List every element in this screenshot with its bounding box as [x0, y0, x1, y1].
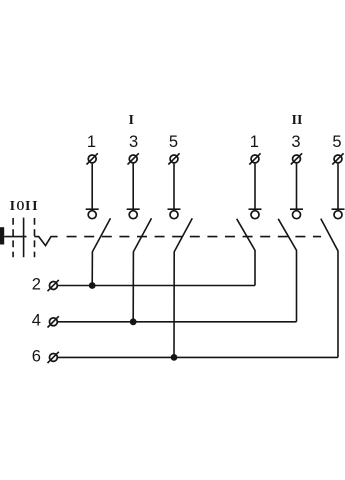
terminal symbol 5 (group I) [168, 153, 179, 164]
wire node 2 [58, 285, 255, 287]
position labels I O II [10, 197, 40, 214]
switch blade pole II-1 with wire to node 2 [237, 219, 255, 286]
actuator handle stub (left edge) [0, 227, 4, 244]
wire node 4 [58, 321, 297, 323]
switch blade pole I-1 with wire to node 2 [92, 218, 110, 285]
wire pole II-5 [337, 164, 339, 209]
junction node 2 / pole I-1 [89, 282, 96, 289]
fixed contact pole I-5 [168, 209, 181, 219]
svg-text:1: 1 [87, 133, 96, 151]
switch blade pole II-5 with wire to node 6 [321, 219, 338, 358]
svg-text:II: II [25, 199, 39, 214]
svg-text:5: 5 [332, 133, 341, 151]
position line O (solid) [23, 218, 25, 258]
svg-text:2: 2 [32, 276, 41, 294]
svg-text:6: 6 [32, 347, 41, 365]
terminal symbol 1 (group II) [249, 153, 260, 164]
fixed contact pole II-1 [249, 209, 262, 219]
detent notch at position II [34, 237, 57, 246]
junction node 4 / pole I-3 [130, 318, 137, 325]
terminal symbol 3 (group I) [128, 153, 139, 164]
wire pole II-1 [254, 164, 256, 209]
svg-text:1: 1 [250, 133, 259, 151]
wire pole I-3 [132, 164, 134, 209]
svg-text:I: I [10, 199, 15, 214]
svg-text:3: 3 [291, 133, 300, 151]
svg-text:3: 3 [129, 133, 138, 151]
switch blade pole I-5 with wire to node 6 [174, 218, 192, 357]
terminal symbol 2 [48, 280, 59, 291]
terminal symbol 4 [48, 316, 59, 327]
wire node 6 [58, 356, 338, 358]
wire pole I-1 [91, 164, 93, 209]
junction node 6 / pole I-5 [171, 354, 178, 361]
fixed contact pole II-5 [332, 209, 345, 219]
actuator shaft [4, 236, 26, 238]
switch blade pole I-3 with wire to node 4 [133, 218, 151, 322]
svg-text:I: I [128, 113, 133, 128]
switch blade pole II-3 with wire to node 4 [278, 219, 296, 322]
terminal symbol 1 (group I) [87, 153, 98, 164]
fixed contact pole II-3 [290, 209, 303, 219]
fixed contact pole I-3 [127, 209, 140, 219]
mechanical linkage dashed line [67, 236, 321, 238]
terminal symbol 5 (group II) [332, 153, 343, 164]
wire pole II-3 [296, 164, 298, 209]
svg-text:II: II [292, 113, 303, 128]
fixed contact pole I-1 [86, 209, 99, 219]
position line I (dashed) [12, 218, 14, 257]
wire pole I-5 [173, 164, 175, 209]
terminal symbol 3 (group II) [291, 153, 302, 164]
position line II (dashed) [34, 218, 36, 257]
svg-text:5: 5 [169, 133, 178, 151]
terminal symbol 6 [48, 352, 59, 363]
svg-text:4: 4 [32, 312, 41, 330]
svg-text:O: O [16, 197, 24, 213]
